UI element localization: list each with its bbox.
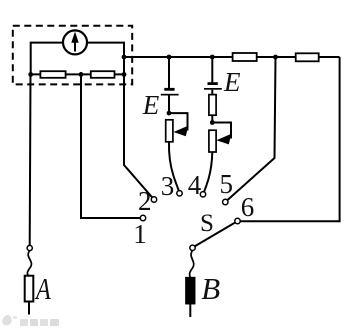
contact 4 — [200, 192, 205, 197]
battery E1 branch wire — [168, 57, 170, 88]
rheostat Rp2 slider arm — [212, 123, 231, 139]
resistor chain wire inside box — [31, 73, 124, 75]
switch pole — [190, 245, 195, 250]
rheostat Rp1 slider arm — [169, 113, 188, 130]
component A box — [25, 276, 34, 302]
right side wire down — [241, 57, 340, 221]
contact 1 — [140, 215, 145, 220]
wire below A — [28, 302, 30, 315]
wire below B — [189, 304, 191, 317]
rheostat Rp2 box — [209, 130, 216, 152]
label 1 — [133, 219, 147, 250]
label B — [201, 271, 220, 307]
label A — [36, 271, 51, 307]
label E (left battery) — [143, 90, 160, 121]
squiggle wire pole to B — [190, 251, 194, 278]
battery E1 plates — [161, 88, 179, 96]
label 6 — [241, 192, 255, 223]
node under E1 — [167, 111, 172, 116]
label 2 — [138, 186, 152, 217]
node: top wire exit — [122, 55, 127, 60]
resistor r (E2 branch) — [209, 95, 216, 116]
wire r to node — [211, 115, 213, 122]
contact 6 — [235, 218, 240, 223]
rheostat Rp1 box — [166, 120, 173, 142]
label S — [200, 210, 214, 238]
squiggle wire to A — [27, 251, 31, 276]
node under r — [210, 120, 215, 125]
node: left junction — [28, 72, 33, 77]
galvanometer arrow — [71, 32, 78, 52]
galvanometer G circle — [63, 30, 87, 54]
rheostat Rp2 slider arrowhead — [216, 134, 231, 145]
wire branch to contact 5 — [227, 57, 275, 200]
wire E2 to resistor r — [211, 90, 213, 95]
wire E1 to node — [168, 96, 170, 114]
label 3 — [161, 171, 175, 202]
label E (right battery) — [224, 67, 241, 98]
rheostat Rp1 slider arrowhead — [174, 126, 189, 137]
dashed box (meter assembly) — [13, 26, 132, 85]
contact 5 — [223, 199, 228, 204]
top wire — [124, 56, 340, 58]
resistor R3 (top wire) — [233, 53, 257, 61]
wire circle-left to corner — [31, 43, 64, 75]
switch lever S — [195, 223, 235, 247]
watermark — [0, 313, 70, 331]
resistor R4 (top wire) — [296, 53, 319, 61]
resistor R2 (in dashed box) — [91, 71, 115, 78]
left vertical wire to A branch — [29, 74, 32, 245]
label 5 — [220, 169, 234, 200]
node: middle junction — [79, 72, 84, 77]
open terminal above A — [27, 245, 32, 250]
battery E2 plates — [204, 82, 222, 90]
node: right junction on resistor line — [122, 72, 127, 77]
resistor R1 (in dashed box) — [40, 71, 65, 78]
node on top wire at contact-5 branch — [273, 55, 278, 60]
wire Rp1 to contact 3 — [169, 142, 179, 191]
middle vertical wire to contact 1 — [81, 74, 140, 218]
node on top wire at E2 branch — [210, 55, 215, 60]
component B (filled) — [186, 278, 195, 304]
node on top wire at E1 branch — [167, 55, 172, 60]
battery E2 branch wire — [211, 57, 213, 83]
right inner vertical wire to contact 2 — [124, 74, 152, 197]
label 4 — [188, 170, 202, 201]
wire circle-right to right vertical — [87, 43, 125, 75]
contact 2 — [151, 197, 156, 202]
contact 3 — [177, 191, 182, 196]
wire Rp2 to contact 4 — [204, 152, 212, 192]
